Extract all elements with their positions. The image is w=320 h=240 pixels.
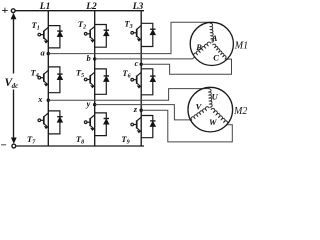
node z [140, 109, 143, 112]
wire node y to motor M2 phase V [95, 105, 193, 120]
transistor T7 [38, 113, 48, 129]
freewheeling diode of T7 [48, 111, 62, 134]
svg-text:z: z [133, 104, 138, 114]
motor M1 winding B [194, 42, 211, 57]
motor M2 winding U [208, 89, 212, 107]
inverter leg L1 vertical wire [47, 11, 49, 146]
motor M1 winding C [213, 44, 227, 59]
svg-text:M1: M1 [234, 41, 248, 52]
transistor T6 [131, 72, 141, 88]
motor M1 winding A [210, 23, 214, 42]
wire node b to motor M1 phase B [95, 57, 195, 59]
svg-text:U: U [212, 91, 219, 101]
motor M2 circle [188, 87, 233, 132]
node b [93, 57, 96, 60]
svg-text:M2: M2 [233, 106, 247, 117]
node c [140, 63, 143, 66]
svg-text:C: C [213, 52, 219, 62]
freewheeling diode of T5 [95, 69, 109, 94]
transistor T5 [84, 72, 94, 88]
svg-text:L3: L3 [132, 2, 144, 12]
node x [47, 99, 50, 102]
wire node z to motor M2 phase W [141, 110, 232, 142]
svg-text:b: b [87, 53, 91, 63]
freewheeling diode of T3 [141, 23, 155, 46]
svg-text:x: x [37, 94, 43, 104]
Vdc source arrow line [13, 18, 15, 140]
top DC rail [15, 10, 144, 12]
transistor T8 [84, 115, 94, 131]
svg-text:B: B [195, 42, 202, 52]
svg-text:+: + [2, 3, 9, 17]
node y [93, 103, 96, 106]
inverter leg L3 vertical wire [140, 11, 142, 146]
motor M1 circle [190, 22, 233, 65]
svg-text:L2: L2 [85, 2, 97, 12]
wire node c to motor M1 phase C [141, 59, 231, 74]
motor M2 winding V [191, 107, 209, 121]
wire node a to motor M1 phase A [48, 22, 210, 53]
bottom DC rail [16, 145, 144, 147]
transistor T3 [131, 26, 141, 42]
transistor T4 [38, 70, 48, 86]
motor M2 winding W [211, 108, 228, 124]
inverter leg L2 vertical wire [94, 11, 96, 146]
freewheeling diode of T2 [95, 25, 109, 48]
freewheeling diode of T8 [95, 113, 109, 136]
freewheeling diode of T1 [48, 26, 62, 48]
freewheeling diode of T9 [141, 116, 155, 138]
transistor T1 [38, 27, 48, 43]
wire node x to motor M2 phase U [48, 89, 209, 101]
transistor T9 [131, 117, 141, 133]
svg-text:A: A [211, 33, 218, 43]
svg-text:c: c [135, 58, 139, 68]
freewheeling diode of T6 [141, 69, 155, 95]
node a [47, 52, 50, 55]
freewheeling diode of T4 [48, 67, 62, 93]
svg-text:−: − [1, 140, 7, 152]
svg-text:L1: L1 [39, 2, 51, 12]
transistor T2 [84, 27, 94, 43]
